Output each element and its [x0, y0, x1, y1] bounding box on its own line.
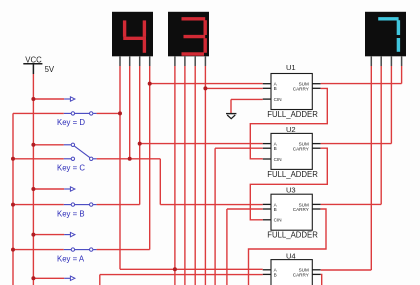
label U1: [286, 63, 296, 72]
wire U1 B input: [205, 87, 262, 89]
wire DISP2 pin1 vertical: [174, 66, 176, 285]
label FULL_ADDER U1: [267, 110, 318, 119]
wire Key C riser x=160: [159, 159, 161, 205]
full adder U4 (clipped): [263, 260, 321, 285]
svg-text:CIN: CIN: [274, 157, 282, 162]
wire Key B pole to DISP1 pin3: [97, 204, 140, 206]
wire U3 B input: [227, 208, 263, 210]
wire DISP1 pin1 vertical (Key D net): [119, 66, 121, 269]
wire U1 CARRY loop: [250, 88, 327, 158]
label Key = B: [57, 209, 85, 218]
DISP3 pins: [371, 56, 401, 66]
svg-text:Key = D: Key = D: [57, 118, 85, 127]
wire U2 B input: [215, 147, 263, 149]
label FULL_ADDER U2: [267, 170, 318, 179]
label FULL_ADDER U3: [267, 231, 318, 240]
ground symbol: [226, 114, 236, 119]
svg-text:Key = B: Key = B: [57, 209, 85, 218]
svg-text:U1: U1: [286, 63, 296, 72]
wire U1 A input: [150, 83, 263, 85]
junction DISP1 pin3 / U2 A: [138, 142, 142, 146]
5V value label: [45, 65, 55, 74]
7-segment display DISP2 body: [168, 12, 209, 57]
VCC symbol: [23, 64, 42, 74]
op-amp-style IC full adder U1: [263, 74, 321, 110]
wire U1 CIN to ground: [231, 99, 263, 113]
wire VCC rail vertical x=33: [32, 74, 34, 285]
wire U3 B input riser: [226, 209, 228, 285]
wire Key D pole to DISP1 pin1: [97, 112, 120, 114]
junction left rail / Key A bottom: [11, 248, 15, 252]
wire Key C to U3 A: [160, 204, 262, 206]
svg-text:U4: U4: [286, 252, 296, 261]
switch J3 (Key C, closed up): [13, 143, 97, 160]
wire DISP3 pin1 vertical (SUM4 net): [370, 66, 372, 270]
wire DISP1 pin2 vertical (Key C net): [129, 66, 131, 159]
label Key = C: [57, 164, 85, 173]
digit 4 on DISP1: [123, 20, 146, 52]
7-segment display DISP3 body: [365, 12, 406, 57]
switch J4 (Key D): [13, 97, 97, 115]
wire U4 CARRY out: [321, 274, 322, 285]
wire U2 CARRY loop: [250, 148, 327, 220]
digit 3 on DISP2: [182, 19, 206, 54]
svg-text:B: B: [274, 272, 277, 277]
wire left rail vertical x=13: [12, 113, 14, 285]
junction VCC rail / Key A: [31, 233, 35, 237]
svg-text:B: B: [274, 146, 277, 151]
wire DISP2 pin2 vertical: [184, 66, 186, 285]
svg-text:FULL_ADDER: FULL_ADDER: [267, 110, 318, 119]
junction DISP1 pin1 / Key D: [118, 111, 122, 115]
label Key = A: [57, 254, 85, 263]
svg-text:VCC: VCC: [25, 56, 42, 65]
wire DISP2 pin3 vertical: [194, 66, 196, 285]
label U4: [286, 252, 296, 261]
wire U1 SUM to DISP3 pin4: [321, 83, 402, 85]
svg-text:CIN: CIN: [274, 97, 282, 102]
wire U3 SUM to DISP3 pin2: [321, 203, 382, 205]
wire DISP1 pin4 vertical (Key A net): [149, 66, 151, 250]
wire U4 B riser x=100: [99, 275, 101, 285]
junction DISP1 pin2 / Key C: [128, 157, 132, 161]
wire U3 CARRY loop: [249, 209, 327, 285]
svg-text:CARRY: CARRY: [293, 207, 309, 212]
svg-text:CARRY: CARRY: [293, 146, 309, 151]
svg-text:U2: U2: [286, 125, 296, 134]
digit 7 on DISP3 (cyan probe): [378, 19, 398, 52]
switch J2 (Key B): [13, 187, 97, 207]
svg-text:B: B: [274, 86, 277, 91]
svg-text:CARRY: CARRY: [293, 273, 309, 278]
wire U4 SUM to DISP3 pin1: [321, 269, 372, 271]
junction left rail / Key B bottom: [11, 203, 15, 207]
wire DISP3 pin2 vertical (SUM3 net): [380, 66, 382, 204]
full adder U3: [263, 194, 321, 230]
junction left rail / Key C bottom: [11, 157, 15, 161]
wire Key C pole east: [97, 158, 161, 160]
wire U2 A input: [140, 143, 263, 145]
junction VCC rail / Key B: [31, 187, 35, 191]
DISP2 pins: [175, 56, 206, 66]
wire U2 SUM to DISP3 pin3: [321, 143, 392, 145]
label U2: [286, 125, 296, 134]
svg-text:Key = C: Key = C: [57, 164, 85, 173]
full adder U2: [263, 133, 321, 169]
VCC label: [25, 56, 42, 65]
junction DISP1 pin4 / U1 A: [148, 82, 152, 86]
junction VCC rail / Key D: [31, 97, 35, 101]
switch J0 top throw (partial): [33, 276, 75, 280]
svg-text:CIN: CIN: [274, 218, 282, 223]
wire DISP3 pin4 vertical (SUM1 net): [401, 66, 403, 84]
svg-text:U3: U3: [286, 185, 296, 194]
wire U4 A input: [120, 268, 263, 270]
label U3: [286, 185, 296, 194]
wire DISP2 pin4 vertical: [204, 66, 206, 285]
svg-text:FULL_ADDER: FULL_ADDER: [267, 231, 318, 240]
junction DISP2 pin4 / U1 B: [203, 86, 207, 90]
svg-text:5V: 5V: [45, 65, 55, 74]
wire U2 B input riser: [214, 148, 216, 285]
wire U4 B input: [100, 274, 263, 276]
junction DISP2 pin1 / U4 A: [173, 267, 177, 271]
svg-text:Key = A: Key = A: [57, 254, 85, 263]
wire DISP3 pin3 vertical (SUM2 net): [390, 66, 392, 144]
switch J1 (Key A): [13, 232, 97, 251]
wire DISP1 pin3 vertical (Key B net): [139, 66, 141, 205]
svg-text:B: B: [274, 207, 277, 212]
DISP1 pins: [120, 56, 150, 66]
wire Key A pole to DISP1 pin4: [97, 249, 150, 251]
junction VCC rail / switch J0: [31, 276, 35, 280]
7-segment display DISP1 body: [112, 12, 153, 57]
svg-text:FULL_ADDER: FULL_ADDER: [267, 170, 318, 179]
junction VCC rail / Key C: [31, 143, 35, 147]
svg-text:CARRY: CARRY: [293, 86, 309, 91]
label Key = D: [57, 118, 85, 127]
